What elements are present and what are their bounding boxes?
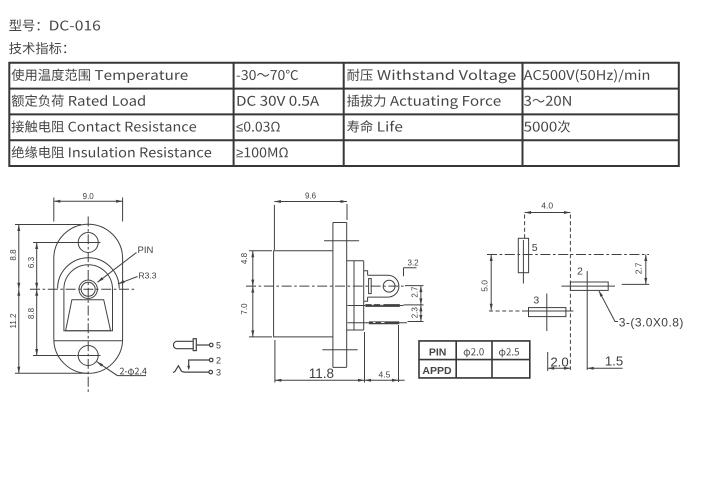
table cell r1c3: 耐压 Withstand Voltage xyxy=(347,69,515,83)
terminal lug 2 thin leads xyxy=(348,322,408,324)
schematic pin2 wire xyxy=(189,360,209,369)
svg-text:2.0: 2.0 xyxy=(550,354,568,369)
svg-text:3: 3 xyxy=(533,295,539,307)
arrows middle drawing xyxy=(274,200,281,203)
dim 6.3/8.8 inner line xyxy=(33,243,78,356)
pin2 slot xyxy=(570,282,608,290)
table cell r3c4: 5000次 xyxy=(524,120,570,132)
flange plate xyxy=(347,261,364,330)
svg-text:PIN: PIN xyxy=(429,346,447,358)
svg-text:11.2: 11.2 xyxy=(9,313,18,329)
outer arc of recess xyxy=(58,258,120,289)
arrows left drawing xyxy=(54,200,61,203)
dim 3.2 leader xyxy=(404,268,417,276)
leader R3.3 xyxy=(118,277,138,284)
dim 4.5 lines xyxy=(365,325,405,382)
schematic switch lever xyxy=(173,366,181,373)
svg-text:9.6: 9.6 xyxy=(305,192,317,201)
svg-text:4.5: 4.5 xyxy=(379,369,391,379)
schematic plug crossbar xyxy=(193,339,196,351)
svg-text:3.2: 3.2 xyxy=(408,258,420,267)
svg-text:3-(3.0X0.8): 3-(3.0X0.8) xyxy=(619,315,684,329)
table cell r1c4: AC500V(50Hz)/min xyxy=(524,69,650,82)
pin3 slot xyxy=(529,308,566,317)
vertical dashed line through pin2 xyxy=(569,215,571,370)
svg-text:1.5: 1.5 xyxy=(605,354,623,369)
collar xyxy=(364,271,368,301)
body step line xyxy=(54,340,123,342)
dim 4.0 line xyxy=(525,212,571,214)
svg-text:2: 2 xyxy=(577,265,583,277)
table cell r2c1: 额定负荷 Rated Load xyxy=(12,94,145,106)
dim 5.0 line xyxy=(490,255,492,311)
schematic pin5 terminal xyxy=(209,343,213,347)
dim 1.5 line xyxy=(587,367,622,369)
dim 11.8 lines xyxy=(275,332,365,383)
table cell r4c1: 绝缘电阻 Insulation Resistance xyxy=(12,146,212,158)
mounting hole top xyxy=(78,233,98,253)
title model number xyxy=(9,19,100,31)
table cell r1c2: -30～70℃ xyxy=(237,70,298,80)
svg-text:2.7: 2.7 xyxy=(410,286,419,298)
table cell r3c3: 寿命 Life xyxy=(347,120,402,132)
center pin circles xyxy=(79,280,97,298)
leader 3-(3.0X0.8) xyxy=(599,291,618,322)
dim 9.0 lines xyxy=(54,198,123,222)
leader PIN xyxy=(98,253,137,283)
svg-text:4.0: 4.0 xyxy=(541,200,553,210)
svg-text:11.8: 11.8 xyxy=(309,366,334,381)
dim 4.0 left extension xyxy=(524,215,526,239)
table cell r3c1: 接触电阻 Contact Resistance xyxy=(12,120,197,132)
svg-text:7.0: 7.0 xyxy=(240,303,249,315)
schematic contact arrow xyxy=(187,366,190,371)
svg-text:3: 3 xyxy=(216,368,221,378)
terminal lug 1 thin leads xyxy=(348,305,404,307)
table cell r3c2: ≤0.03Ω xyxy=(236,122,279,132)
barrel tip hole xyxy=(383,280,395,292)
table cell r2c4: 3～20N xyxy=(524,96,571,106)
schematic plug bullet xyxy=(173,341,192,348)
pin size table grid xyxy=(418,340,530,379)
dim 9.6 lines xyxy=(274,202,347,251)
svg-text:5: 5 xyxy=(532,242,538,254)
pin table phi2.5 xyxy=(499,348,519,357)
svg-text:8.8: 8.8 xyxy=(27,307,36,319)
spec table grid xyxy=(8,62,680,167)
panel cross line top xyxy=(324,240,359,242)
arrows right drawing xyxy=(525,211,532,214)
dim 2.7 lines xyxy=(622,255,650,285)
table cell r1c1: 使用温度范围 Temperature xyxy=(11,69,187,83)
barrel outline xyxy=(368,275,399,297)
svg-text:PIN: PIN xyxy=(138,245,154,256)
pin3 horizontal line xyxy=(526,310,573,312)
barrel base detail xyxy=(369,279,372,294)
leader 2-phi2.4 xyxy=(97,362,146,376)
schematic pin3 terminal xyxy=(209,370,213,374)
pin3 vertical line xyxy=(546,294,548,332)
label 2-phi2.4 xyxy=(120,368,147,377)
dim 4.8/7.0 line xyxy=(249,251,272,337)
svg-text:2.3: 2.3 xyxy=(410,307,419,319)
table cell r2c2: DC 30V 0.5A xyxy=(238,96,320,106)
svg-text:5.0: 5.0 xyxy=(480,280,490,292)
table cell r2c3: 插拔力 Actuating Force xyxy=(347,95,500,110)
svg-text:2.7: 2.7 xyxy=(634,262,644,274)
footprint horizontal center line xyxy=(487,254,649,256)
svg-text:APPD: APPD xyxy=(422,365,452,377)
side view center line xyxy=(246,285,404,287)
mounting hole bottom xyxy=(78,346,98,366)
dim 8.8/11.2 outer line xyxy=(15,225,88,374)
svg-text:R3.3: R3.3 xyxy=(139,270,157,280)
schematic pin3 wire xyxy=(181,370,208,373)
panel cross line bottom xyxy=(322,349,357,351)
svg-text:5: 5 xyxy=(216,340,221,350)
pin5 slot xyxy=(518,238,528,272)
front view horizontal center line xyxy=(30,288,135,290)
pin table phi2.0 xyxy=(464,348,484,357)
dim 2.7/2.3 line xyxy=(404,286,424,322)
dim 2.0 lines xyxy=(548,352,571,371)
pin2 horizontal line xyxy=(561,285,615,287)
svg-text:2: 2 xyxy=(216,355,221,365)
pin5 center line xyxy=(522,240,524,284)
schematic pin5 wire xyxy=(196,344,209,346)
pin2 vertical line xyxy=(586,271,588,370)
svg-text:9.0: 9.0 xyxy=(83,192,95,201)
svg-text:8.8: 8.8 xyxy=(9,249,18,261)
svg-text:6.3: 6.3 xyxy=(27,256,36,268)
side view body rectangle xyxy=(274,251,333,337)
front view vertical center line xyxy=(87,217,89,393)
terminal lug 2 xyxy=(369,321,399,324)
inner recess R3.3 arch xyxy=(64,265,113,331)
side view mounting lug strip xyxy=(333,223,347,368)
table cell r4c2: ≥100MΩ xyxy=(236,147,288,157)
pin holder trapezoid xyxy=(66,300,111,331)
svg-text:4.8: 4.8 xyxy=(240,252,249,264)
terminal lug 1 xyxy=(365,304,400,307)
front view body outline (stadium) xyxy=(54,224,123,373)
dim 5.0 bottom extension xyxy=(489,310,526,312)
schematic pin2 terminal xyxy=(209,358,213,362)
subtitle tech spec xyxy=(9,42,66,54)
